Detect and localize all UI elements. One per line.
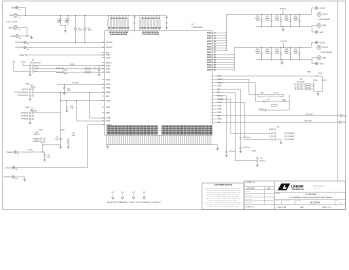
svg-text:JP3: JP3 <box>31 108 34 110</box>
capacitor C3 68uF electrolytic <box>75 15 77 28</box>
U1 bottom pin names band A <box>106 125 158 135</box>
svg-text:C22: C22 <box>275 16 278 18</box>
svg-text:JP5: JP5 <box>260 158 263 160</box>
svg-text:(408) 432-1900: (408) 432-1900 <box>313 188 321 190</box>
ground VOUT1 rail <box>282 27 284 29</box>
ground C39 <box>63 92 66 95</box>
svg-text:GND: GND <box>8 27 13 29</box>
svg-text:RUN1: RUN1 <box>56 68 60 70</box>
svg-text:JP4: JP4 <box>277 127 280 129</box>
svg-text:(PULSE-SKIPPING): (PULSE-SKIPPING) <box>15 92 29 94</box>
svg-text:VOUT2: VOUT2 <box>207 62 212 64</box>
svg-text:C29: C29 <box>294 49 297 51</box>
node VOUT1 bus <box>226 14 310 50</box>
svg-text:VOUT2: VOUT2 <box>207 65 212 67</box>
svg-text:TP43 SW2: TP43 SW2 <box>304 121 311 123</box>
svg-text:C21: C21 <box>266 16 269 18</box>
capacitor C30 47pF <box>66 101 68 106</box>
wire vertical bus B <box>77 101 105 121</box>
title cell <box>275 191 346 193</box>
svg-text:J8: J8 <box>214 52 216 54</box>
capacitor C34 comp <box>264 100 265 102</box>
node TP29 RUN2 <box>34 71 105 74</box>
svg-text:SHEET 1 OF 1: SHEET 1 OF 1 <box>322 207 331 209</box>
capacitor C10 input bank <box>121 15 123 19</box>
ground C32 <box>43 159 46 162</box>
svg-text:VOS1: VOS1 <box>217 86 221 88</box>
capacitor C7 input bank <box>113 15 115 19</box>
wire vertical bus C <box>90 92 105 118</box>
wire JP6 down <box>42 143 44 153</box>
wire E2 to ground <box>19 35 32 37</box>
svg-text:100µF: 100µF <box>265 51 270 53</box>
jumper JP4 row 3 <box>271 139 273 141</box>
wire FB2 down <box>217 93 236 120</box>
wire PGOOD1 <box>26 41 105 43</box>
svg-text:E11: E11 <box>15 178 18 180</box>
wire CLKIN2 down <box>217 102 271 139</box>
svg-text:100µF: 100µF <box>255 51 260 53</box>
wire COMP1 down <box>217 79 258 94</box>
svg-text:VOUT1: VOUT1 <box>207 38 212 40</box>
capacitor C9 input bank <box>119 15 121 19</box>
U1 right signal pin stubs <box>212 76 216 122</box>
svg-text:VOUT2: VOUT2 <box>322 47 328 49</box>
svg-text:C23: C23 <box>285 16 288 18</box>
wire JP6 to C33 <box>43 144 61 146</box>
wire E1 to VIN rail <box>18 8 25 16</box>
node TP comp <box>284 99 286 101</box>
svg-text:C39: C39 <box>67 88 70 90</box>
svg-text:PHMODE: PHMODE <box>269 129 276 131</box>
title block outline <box>244 181 346 210</box>
svg-text:0.1µF: 0.1µF <box>55 139 59 141</box>
svg-text:MODE: MODE <box>70 64 75 66</box>
svg-text:C38 0.1µF: C38 0.1µF <box>243 147 250 149</box>
wire EXTVCC <box>15 177 25 179</box>
svg-text:PGOOD2: PGOOD2 <box>15 47 23 49</box>
svg-text:VIN VIN VIN VIN VIN VIN VIN: VIN VIN VIN VIN VIN VIN VIN <box>109 32 129 34</box>
capacitor C5 input bank <box>107 15 109 19</box>
wire CLKOUT to U1 <box>15 125 105 168</box>
capacitor C11 input bank <box>124 15 126 19</box>
wire VOUT1 pin stubs to bus <box>212 33 226 51</box>
svg-text:TP40: TP40 <box>318 73 322 75</box>
svg-text:C3: C3 <box>78 27 80 29</box>
svg-text:VOUT2: VOUT2 <box>207 67 212 69</box>
banana jack J3 VOUT1 <box>317 12 321 16</box>
svg-text:1.5V: 1.5V <box>294 86 297 88</box>
svg-text:VOUT1: VOUT1 <box>207 33 212 35</box>
svg-text:C12: C12 <box>133 17 136 19</box>
logo column divider <box>274 181 276 210</box>
svg-text:J1: J1 <box>19 18 21 20</box>
svg-text:C32: C32 <box>47 155 50 157</box>
svg-text:25V: 25V <box>65 22 68 24</box>
ground C1 C2 <box>64 29 67 32</box>
svg-text:RUN2: RUN2 <box>106 72 110 74</box>
capacitor C12 0.1uF <box>133 15 135 30</box>
svg-text:VOUT2: VOUT2 <box>319 42 325 44</box>
customer notice box <box>202 183 244 210</box>
svg-text:RUN: RUN <box>72 135 75 137</box>
ground under U1 left <box>106 145 109 148</box>
svg-text:MODE/PLLIN1: MODE/PLLIN1 <box>30 62 40 64</box>
wire CLKIN hook <box>23 63 29 66</box>
jumper JP1 row 1 <box>29 65 31 67</box>
node VIN rail <box>18 14 162 16</box>
svg-text:Dual 8A High Density Step-Down: Dual 8A High Density Step-Down Power Mod… <box>290 196 334 199</box>
ground C19 <box>165 27 167 29</box>
svg-text:CLKOUT: CLKOUT <box>5 167 13 169</box>
svg-text:VOUT1: VOUT1 <box>207 44 212 46</box>
svg-text:1.8V: 1.8V <box>294 89 297 91</box>
svg-text:LTM4646EV: LTM4646EV <box>192 27 204 29</box>
wire SW1 to TP <box>217 115 340 117</box>
svg-text:INTVCC: INTVCC <box>260 161 267 163</box>
svg-text:100µF: 100µF <box>284 18 289 20</box>
wire horizontal mid <box>61 100 105 102</box>
capacitor C18 input bank <box>153 15 155 19</box>
svg-text:C26: C26 <box>266 49 269 51</box>
svg-text:SW1: SW1 <box>106 52 109 54</box>
U1 left pin stubs and names <box>102 42 105 124</box>
svg-text:INTVCC: INTVCC <box>106 63 112 65</box>
banana jack J4 GND <box>311 25 317 26</box>
turret E5 VOUT2 <box>311 43 316 48</box>
wire VOS2 to JP8 <box>217 76 323 82</box>
wire VOUT2 pin stubs to bus <box>212 55 234 70</box>
svg-text:100µF: 100µF <box>275 18 280 20</box>
svg-text:R1 10k: R1 10k <box>28 149 33 151</box>
capacitor C2 22uF <box>66 15 69 23</box>
svg-text:VOUT2: VOUT2 <box>207 57 212 59</box>
turret E4 GND <box>312 27 315 32</box>
svg-text:C20: C20 <box>256 16 259 18</box>
svg-text:TECHNOLOGY: TECHNOLOGY <box>292 189 305 191</box>
svg-text:1.5V AT 8A MAX: 1.5V AT 8A MAX <box>318 18 331 21</box>
svg-text:COMP: COMP <box>106 118 110 120</box>
svg-text:C37 0.1µF: C37 0.1µF <box>243 137 250 139</box>
svg-text:RUN2: RUN2 <box>56 72 60 74</box>
svg-text:E8: E8 <box>27 49 29 51</box>
svg-text:100µF: 100µF <box>265 18 270 20</box>
svg-text:0.1µF: 0.1µF <box>47 156 51 158</box>
ground JP1 <box>29 72 31 73</box>
jumper JP4 row 1 <box>271 133 273 135</box>
wire INTVCC down <box>217 96 227 150</box>
resistor R5 run1 <box>85 68 91 70</box>
node VOUT2 bottom rail <box>256 59 311 61</box>
svg-text:C27: C27 <box>275 49 278 51</box>
ground C33 <box>59 146 62 149</box>
jumper JP4 row 2 <box>271 136 273 138</box>
svg-text:C28: C28 <box>285 49 288 51</box>
node VOUT1 bottom rail <box>256 26 311 28</box>
wire comp right vertical <box>288 94 290 110</box>
capacitor C8 input bank <box>116 15 118 19</box>
svg-text:VIN: VIN <box>11 7 15 9</box>
svg-text:J7: J7 <box>214 49 216 51</box>
capacitor C17 input bank <box>150 15 152 19</box>
svg-text:GND GND GND GND GND GND GND GN: GND GND GND GND GND GND GND GND GND GND … <box>107 134 158 136</box>
ground VOUT2 rail <box>281 60 283 62</box>
wire PHASMD down <box>217 99 271 133</box>
svg-text:VOUT1: VOUT1 <box>280 8 286 10</box>
capacitor C19 input bank <box>156 15 158 19</box>
banana jack J5 VOUT2 <box>317 45 321 49</box>
jumper JP8 row 1 <box>297 84 299 86</box>
svg-text:VFB1: VFB1 <box>106 107 110 109</box>
capacitor C20 input bank <box>159 15 161 19</box>
svg-text:4.5V TO 16V: 4.5V TO 16V <box>6 21 18 23</box>
wire PGOOD2 <box>26 46 105 48</box>
svg-text:C25: C25 <box>256 49 259 51</box>
svg-text:C2: C2 <box>65 18 67 20</box>
svg-text:VOUT1: VOUT1 <box>319 8 325 10</box>
svg-text:TRACK1: TRACK1 <box>6 151 13 154</box>
svg-text:~~~: ~~~ <box>255 192 258 194</box>
svg-text:MF: MF <box>267 100 269 102</box>
svg-text:(BURST): (BURST) <box>22 89 29 91</box>
ground C30 <box>65 109 68 112</box>
svg-text:PGOOD1: PGOOD1 <box>15 42 23 44</box>
svg-text:VOUT1: VOUT1 <box>207 35 212 37</box>
wire vertical bus A <box>60 92 62 138</box>
wire JP3 to U1 <box>34 112 61 114</box>
capacitor C13 input bank <box>139 15 141 19</box>
svg-text:JP8: JP8 <box>300 79 303 81</box>
capacitor C39 47pF pll <box>63 84 65 92</box>
svg-text:DWG NO.: DWG NO. <box>296 200 302 202</box>
svg-text:RUN1: RUN1 <box>19 55 24 57</box>
svg-text:100µF: 100µF <box>293 51 298 53</box>
node VOUT2 bus <box>234 47 310 70</box>
wire EXT hook <box>14 63 29 72</box>
node GND rail under U1 <box>106 144 213 146</box>
capacitor C4 68uF electrolytic <box>84 15 86 28</box>
svg-text:68µF: 68µF <box>78 29 82 31</box>
svg-text:1.2V AT 8A MAX: 1.2V AT 8A MAX <box>320 51 333 54</box>
wire JP8 rails <box>313 82 315 92</box>
svg-text:SW2: SW2 <box>106 96 109 98</box>
svg-text:JP1: JP1 <box>32 60 35 62</box>
svg-text:VOUT2: VOUT2 <box>322 80 327 82</box>
ground JP4 <box>280 141 283 144</box>
wire SW2 to TP <box>217 121 339 123</box>
capacitor C12 input bank <box>127 15 129 19</box>
svg-text:GND: GND <box>319 32 324 34</box>
turret E3 VOUT1 <box>311 8 316 14</box>
svg-text:RUN1: RUN1 <box>106 55 110 57</box>
svg-text:100µF: 100µF <box>275 51 280 53</box>
jumper JP1 row 2 <box>29 68 31 70</box>
svg-text:SW2: SW2 <box>342 122 345 124</box>
svg-text:VOUT1: VOUT1 <box>207 46 212 48</box>
svg-text:SIZE: SIZE <box>276 200 279 202</box>
svg-text:LINEAR: LINEAR <box>291 185 304 189</box>
svg-text:E9: E9 <box>17 154 19 156</box>
svg-text:TMON: TMON <box>106 100 110 102</box>
svg-text:47pF: 47pF <box>67 90 70 92</box>
capacitor C33 0.1uF <box>59 139 62 140</box>
node TP28 RUN1 <box>34 68 105 70</box>
wire RUN1 <box>26 54 104 56</box>
ground JP7 <box>67 146 70 149</box>
turret E6 GND <box>312 60 315 64</box>
svg-text:1: 1 <box>340 203 341 205</box>
svg-text:PLLFLTR: PLLFLTR <box>72 83 79 85</box>
capacitor C6 input bank <box>110 15 112 19</box>
svg-text:100µF: 100µF <box>293 18 298 20</box>
svg-text:RELAY/TEST: MANUALLY TIE ALL G: RELAY/TEST: MANUALLY TIE ALL GND TOGETHE… <box>107 201 162 204</box>
svg-text:C1 C2 C3 D1 D2 D3 E1 E2: C1 C2 C3 D1 D2 D3 E1 E2 <box>142 34 159 36</box>
svg-text:GND: GND <box>322 25 327 27</box>
svg-text:(CONTINUOUS): (CONTINUOUS) <box>17 95 29 97</box>
resistor R3 comp <box>271 101 279 102</box>
svg-text:VOUT2: VOUT2 <box>207 55 212 57</box>
small box comp <box>272 105 278 107</box>
wire C1 C2 gnd tie <box>61 24 66 26</box>
capacitor C1 22uF <box>59 15 62 23</box>
wire FB1 down <box>217 89 241 105</box>
resistor R6 run2 <box>85 72 91 74</box>
wire JP2 to U1 <box>34 91 105 93</box>
wire JP1 to U1 MODE pin <box>34 65 105 67</box>
svg-text:GND: GND <box>322 58 327 60</box>
svg-text:CLKOUT: CLKOUT <box>106 125 112 127</box>
svg-text:68µF: 68µF <box>88 29 92 31</box>
svg-text:PLLIN: PLLIN <box>106 84 110 86</box>
capacitor C36 0.1uF <box>225 150 227 154</box>
svg-text:VOUT1: VOUT1 <box>207 49 212 51</box>
svg-text:TITLE:: TITLE: <box>276 193 281 195</box>
svg-text:E7: E7 <box>27 44 29 46</box>
jumper JP8 row 2 <box>297 86 299 88</box>
svg-text:CUSTOMER NOTICE: CUSTOMER NOTICE <box>214 185 233 187</box>
LT logo <box>278 184 291 191</box>
svg-text:22µF: 22µF <box>57 20 61 22</box>
svg-text:VOUT1: VOUT1 <box>207 41 212 43</box>
wire R1 to node <box>33 151 45 153</box>
svg-text:47pF: 47pF <box>70 107 74 109</box>
svg-text:25V: 25V <box>57 22 60 24</box>
svg-text:~~~: ~~~ <box>255 199 258 201</box>
ground C38 <box>239 150 242 153</box>
ground under U1 right <box>213 145 217 148</box>
ground C31 <box>98 74 100 76</box>
svg-text:ENGINEER: ENGINEER <box>246 198 253 200</box>
svg-text:VOUT1: VOUT1 <box>322 14 328 16</box>
svg-text:TP42 SW1: TP42 SW1 <box>305 114 312 116</box>
capacitor C35 comp row <box>264 109 265 111</box>
svg-text:JP2: JP2 <box>31 85 34 87</box>
svg-text:VFB2: VFB2 <box>106 113 110 115</box>
capacitor C15 input bank <box>144 15 146 19</box>
svg-text:EXTVCC: EXTVCC <box>4 177 12 179</box>
svg-text:DC1974A: DC1974A <box>310 201 320 204</box>
svg-text:C30: C30 <box>70 105 73 107</box>
capacitor C31 0.1uF at U1 <box>98 67 100 74</box>
svg-text:VIN VIN VIN VIN VIN VIN: VIN VIN VIN VIN VIN VIN <box>142 32 159 34</box>
svg-text:C33: C33 <box>56 137 59 139</box>
capacitor C14 input bank <box>142 15 144 19</box>
capacitor C32 0.1uF <box>44 152 46 159</box>
svg-text:JP6: JP6 <box>35 132 38 134</box>
capacitor C38 0.1uF <box>240 146 242 151</box>
jumper JP1 row 3 <box>29 71 31 73</box>
svg-text:MODE: MODE <box>106 65 110 67</box>
svg-text:E10: E10 <box>16 169 19 171</box>
svg-text:GND: GND <box>319 63 324 65</box>
svg-text:PGOOD2: PGOOD2 <box>106 47 113 49</box>
svg-text:JP7: JP7 <box>72 133 75 135</box>
svg-text:100µF: 100µF <box>255 18 260 20</box>
jumper JP5 EXTVCC <box>235 119 256 161</box>
dwg number row <box>275 199 346 201</box>
svg-text:E1: E1 <box>19 9 21 11</box>
ground input <box>30 36 33 39</box>
capacitor C16 input bank <box>147 15 149 19</box>
svg-text:1.2V: 1.2V <box>294 84 297 86</box>
svg-text:C1: C1 <box>58 18 60 20</box>
capacitor C37 0.1uF <box>240 136 242 141</box>
ground EXTVCC <box>23 179 26 182</box>
svg-text:J3: J3 <box>214 38 216 40</box>
jumper JP8 row 3 <box>297 88 299 90</box>
bottom row <box>275 204 346 206</box>
svg-text:REV: REV <box>336 200 339 202</box>
svg-text:TP29: TP29 <box>64 74 67 76</box>
ground JP8 <box>317 93 320 96</box>
inner border right margin line <box>337 1 339 181</box>
banana jack J6 GND <box>311 58 317 60</box>
svg-text:GND: GND <box>11 36 16 38</box>
wire COMP2 down <box>217 83 261 102</box>
capacitor C19 0.1uF <box>166 20 168 27</box>
svg-text:100µF: 100µF <box>284 51 289 53</box>
svg-text:VIN: VIN <box>9 15 13 17</box>
svg-text:E2: E2 <box>19 38 21 40</box>
svg-text:TP28: TP28 <box>64 70 67 72</box>
svg-text:VOUT2: VOUT2 <box>207 60 212 62</box>
wire TEMP down <box>240 105 242 136</box>
svg-text:J2: J2 <box>19 30 21 32</box>
svg-text:~~~: ~~~ <box>255 195 258 197</box>
approvals column <box>244 186 275 188</box>
wire TRACK1 <box>17 151 28 153</box>
U1 bottom GND pin stubs hatch <box>107 135 212 144</box>
svg-text:C24: C24 <box>294 16 297 18</box>
svg-text:VOUT2: VOUT2 <box>280 41 286 43</box>
svg-text:LTM4646EV: LTM4646EV <box>305 194 317 196</box>
svg-text:CHECKED: CHECKED <box>246 194 252 196</box>
svg-text:0.1µF: 0.1µF <box>259 108 263 110</box>
svg-text:C4: C4 <box>88 27 90 29</box>
svg-text:PGOOD1: PGOOD1 <box>106 42 113 44</box>
svg-text:C31: C31 <box>94 68 97 70</box>
svg-text:VOUT1: VOUT1 <box>207 52 212 54</box>
svg-text:SW1: SW1 <box>343 115 346 117</box>
wire J2 to GND <box>18 28 27 37</box>
svg-text:TEMP: TEMP <box>217 105 221 107</box>
svg-text:VOUT2: VOUT2 <box>207 70 212 72</box>
svg-text:RUN1: RUN1 <box>106 68 110 70</box>
sheet border frame <box>3 1 346 210</box>
svg-text:C36 0.1µF: C36 0.1µF <box>229 151 236 153</box>
svg-text:22µF: 22µF <box>64 20 68 22</box>
ground JP5 <box>256 164 259 167</box>
